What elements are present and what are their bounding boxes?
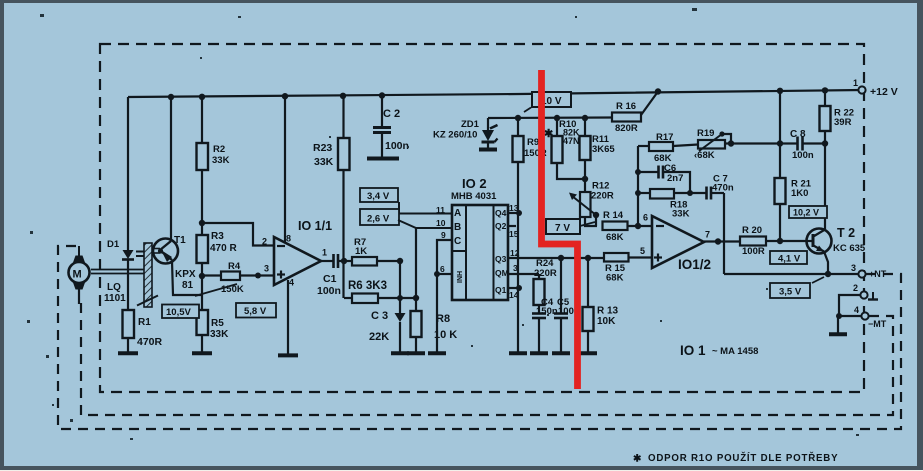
- svg-text:MHB 4031: MHB 4031: [451, 191, 497, 202]
- red marker line: [542, 70, 578, 389]
- svg-text:IO 1/1: IO 1/1: [298, 219, 332, 233]
- resistor R13: [583, 255, 619, 352]
- svg-text:81: 81: [182, 280, 194, 291]
- pin 14 wire: [508, 285, 522, 300]
- svg-text:R 16: R 16: [616, 101, 636, 112]
- wire: +12V top rail: [128, 90, 862, 97]
- svg-text:10,5V: 10,5V: [166, 307, 191, 318]
- voltage box 2,6V: [360, 209, 452, 228]
- ground: [479, 148, 497, 152]
- resistor R21: [775, 178, 812, 241]
- svg-text:IO1/2: IO1/2: [678, 257, 711, 272]
- svg-text:100n: 100n: [385, 140, 409, 152]
- svg-text:R 20: R 20: [742, 225, 762, 236]
- capacitor C6: [638, 163, 690, 193]
- node dots: [515, 115, 588, 121]
- ground: [428, 351, 446, 355]
- svg-text:4: 4: [854, 305, 859, 315]
- ground: [367, 157, 399, 161]
- voltage box 7V: [546, 219, 595, 234]
- enclosure dashed box: [100, 44, 864, 392]
- ground: [530, 351, 548, 355]
- resistor R24: [534, 258, 557, 313]
- svg-text:C 3: C 3: [371, 310, 388, 322]
- resistor R10: [552, 118, 586, 179]
- wire to R4: [202, 274, 221, 276]
- wire output to C1: [321, 260, 333, 262]
- svg-text:10,2 V: 10,2 V: [793, 208, 819, 218]
- wire: [127, 259, 129, 310]
- svg-text:A: A: [454, 208, 461, 219]
- svg-text:R9: R9: [527, 137, 539, 148]
- svg-text:5: 5: [640, 246, 645, 256]
- motor shaft double line: [91, 270, 146, 274]
- voltage box 5,8V: [195, 284, 276, 318]
- svg-text:7 V: 7 V: [555, 223, 570, 234]
- svg-text:1: 1: [322, 248, 327, 258]
- svg-text:10K: 10K: [597, 316, 616, 327]
- svg-text:10: 10: [436, 218, 446, 228]
- svg-text:470 R: 470 R: [210, 243, 237, 254]
- terminal 1 +12V: [853, 78, 898, 98]
- ground: [509, 351, 527, 355]
- svg-text:1: 1: [853, 78, 858, 88]
- resistor R18: [638, 189, 706, 220]
- resistor R7: [344, 237, 400, 266]
- svg-text:ODPOR R1O POUŽÍT DLE POTŘEBY: ODPOR R1O POUŽÍT DLE POTŘEBY: [648, 452, 838, 464]
- wire: [201, 263, 203, 310]
- wire emitter line to terminal 3: [724, 271, 858, 277]
- svg-text:R8: R8: [436, 313, 450, 325]
- capacitor C8: [790, 129, 825, 161]
- svg-text:R23: R23: [313, 142, 332, 154]
- svg-text:33K: 33K: [314, 156, 334, 168]
- wire: [201, 335, 203, 352]
- node: [715, 238, 721, 244]
- voltage box 10,2V: [789, 206, 827, 218]
- svg-text:B: B: [454, 222, 461, 233]
- pin 15 stub: [508, 226, 519, 239]
- feedback bus wire: [635, 146, 649, 226]
- resistor R4: [221, 261, 244, 295]
- svg-text:R19: R19: [697, 128, 714, 139]
- svg-text:39R: 39R: [834, 117, 852, 128]
- svg-text:QM: QM: [495, 268, 509, 278]
- op-amp IO1/2: [652, 216, 711, 272]
- svg-text:+NT: +NT: [869, 269, 887, 279]
- svg-text:M: M: [73, 269, 82, 281]
- wire op-amp pin4 ground: [287, 280, 289, 354]
- svg-text:11: 11: [436, 205, 445, 215]
- svg-text:Q3: Q3: [495, 254, 507, 264]
- capacitor C3: [369, 261, 406, 352]
- wire R9 down to pin13/pin14 column: [517, 162, 519, 352]
- svg-text:8: 8: [286, 234, 291, 244]
- svg-text:KC 635: KC 635: [833, 243, 866, 254]
- capacitor C2: [373, 108, 409, 157]
- wire 10V node line: [488, 116, 612, 119]
- svg-text:150n: 150n: [536, 306, 558, 317]
- capacitor C2 column: [381, 96, 383, 128]
- resistor R11: [580, 118, 616, 191]
- svg-text:9: 9: [441, 230, 446, 240]
- svg-text:R17: R17: [656, 132, 673, 143]
- resistor R14: [596, 210, 652, 243]
- capacitor C1: [317, 254, 344, 297]
- wire R19 to C8: [725, 142, 797, 144]
- footnote text: [633, 452, 838, 465]
- resistor R23: [313, 138, 350, 170]
- svg-text:7: 7: [705, 230, 710, 240]
- svg-text:Q1: Q1: [495, 285, 507, 295]
- resistor R5: [197, 310, 230, 340]
- svg-text:2,6 V: 2,6 V: [367, 214, 390, 225]
- wire R4 to op-amp: [240, 274, 274, 276]
- svg-text:33K: 33K: [210, 329, 229, 340]
- LED D1: [107, 239, 144, 260]
- pin 6 wire: [434, 264, 452, 277]
- svg-text:100R: 100R: [742, 246, 765, 257]
- svg-text:1K0: 1K0: [791, 188, 808, 199]
- ground: [829, 332, 847, 336]
- resistor R9: [513, 118, 547, 162]
- svg-text:C 2: C 2: [383, 108, 400, 120]
- svg-text:220R: 220R: [591, 191, 614, 202]
- node: [341, 258, 347, 264]
- svg-text:‹68K: ‹68K: [694, 150, 715, 161]
- svg-text:3K65: 3K65: [592, 144, 615, 155]
- node dots on rail: [168, 87, 828, 100]
- node: [199, 273, 205, 279]
- op-amp IO1/1: [262, 219, 332, 288]
- slotted disc: [137, 243, 158, 307]
- svg-text:Q2: Q2: [495, 221, 507, 231]
- wire T1 emitter: [172, 261, 202, 295]
- ground: [278, 353, 298, 357]
- svg-text:R1: R1: [138, 317, 151, 328]
- phototransistor T1: [153, 235, 186, 264]
- voltage box 10,5V: [162, 305, 199, 319]
- pin 12 wire to R15: [508, 248, 604, 258]
- svg-text:3: 3: [851, 263, 856, 273]
- svg-text:−MT: −MT: [868, 319, 887, 329]
- svg-text:T 2: T 2: [837, 226, 855, 240]
- resistor R3: [197, 231, 238, 263]
- resistor R2: [197, 143, 230, 170]
- wire: [127, 338, 129, 352]
- wire C7 down to emitter line: [723, 193, 725, 274]
- ground: [118, 351, 138, 355]
- svg-text:3: 3: [264, 264, 269, 274]
- wire D1 column: [127, 97, 129, 250]
- svg-text:INH: INH: [457, 271, 464, 283]
- resistor R6: [344, 280, 416, 303]
- svg-text:1K: 1K: [355, 246, 367, 257]
- svg-text:1101: 1101: [104, 293, 126, 304]
- svg-text:IO 2: IO 2: [462, 176, 487, 191]
- capacitor C4: [532, 297, 558, 352]
- trimmer R19: [694, 128, 734, 161]
- node: [199, 220, 205, 226]
- dashed cable wire +NT to motor: [58, 246, 901, 429]
- svg-text:R4: R4: [228, 261, 241, 272]
- capacitor C7: [707, 174, 734, 200]
- wire R21 column: [777, 91, 783, 178]
- svg-text:470n: 470n: [712, 183, 734, 194]
- pin 9 wire: [437, 230, 452, 352]
- svg-text:2: 2: [262, 237, 267, 247]
- svg-text:R3: R3: [211, 231, 224, 242]
- wire to pin2: [202, 223, 274, 246]
- ground: [407, 351, 425, 355]
- node: [777, 238, 783, 244]
- wire R2 column: [201, 97, 203, 143]
- svg-text:R6 3K3: R6 3K3: [348, 280, 387, 292]
- transistor T2: [807, 226, 866, 274]
- svg-text:IO 1: IO 1: [680, 343, 706, 358]
- voltage box 3,4V: [360, 188, 452, 214]
- svg-text:33K: 33K: [672, 209, 690, 220]
- zener ZD1: [433, 118, 498, 148]
- node: [397, 258, 403, 264]
- wire T1 collector column: [170, 97, 172, 240]
- svg-text:2: 2: [853, 283, 858, 293]
- voltage box 3,5V: [770, 277, 824, 298]
- label KPX 81: [175, 269, 196, 291]
- svg-text:C1: C1: [323, 273, 337, 285]
- ground: [579, 351, 597, 355]
- resistor R1: [123, 310, 163, 348]
- svg-text:470R: 470R: [137, 336, 163, 348]
- node: [255, 273, 261, 279]
- svg-text:R2: R2: [213, 144, 225, 155]
- resistor R8: [411, 228, 458, 352]
- ground: [391, 351, 409, 355]
- svg-text:5,8 V: 5,8 V: [244, 306, 267, 317]
- ground: [552, 351, 570, 355]
- terminal 2: [839, 283, 878, 316]
- voltage box 4,1V: [770, 251, 807, 265]
- svg-text:T1: T1: [174, 235, 186, 246]
- svg-text:D1: D1: [107, 239, 120, 250]
- svg-text:33K: 33K: [212, 155, 230, 166]
- trimmer R12: [569, 181, 614, 227]
- ground: [192, 351, 212, 355]
- svg-text:KPX: KPX: [175, 269, 196, 280]
- resistor R16: [612, 92, 658, 135]
- IC IO2 MHB 4031: [451, 176, 509, 300]
- label LQ 1101: [104, 282, 126, 304]
- svg-text:LQ: LQ: [107, 282, 121, 293]
- svg-text:✱: ✱: [633, 454, 642, 465]
- svg-text:6: 6: [440, 264, 445, 274]
- svg-text:100n: 100n: [317, 285, 341, 297]
- pin 3 wire: [508, 263, 539, 274]
- svg-text:R 13: R 13: [597, 306, 619, 317]
- svg-text:C 8: C 8: [790, 129, 806, 140]
- wire: [201, 170, 203, 235]
- svg-text:C: C: [454, 236, 461, 247]
- dashed cable wire -MT to motor: [81, 302, 893, 415]
- svg-text:68K: 68K: [606, 232, 624, 243]
- svg-text:4: 4: [289, 278, 294, 288]
- node: [397, 295, 403, 301]
- wire op-amp output: [704, 240, 740, 242]
- svg-text:3,5 V: 3,5 V: [779, 287, 802, 298]
- svg-text:Q4: Q4: [495, 208, 507, 218]
- pin 13 stub: [508, 203, 522, 216]
- label IO1 = MA 1458: [680, 343, 758, 358]
- wire: [342, 170, 344, 298]
- svg-text:6: 6: [643, 213, 648, 223]
- svg-text:3,4 V: 3,4 V: [367, 191, 390, 202]
- svg-text:2n7: 2n7: [667, 173, 683, 184]
- svg-text:220R: 220R: [534, 268, 557, 279]
- resistor R22: [820, 90, 855, 229]
- svg-text:R5: R5: [211, 318, 224, 329]
- svg-text:4,1 V: 4,1 V: [778, 254, 801, 265]
- resistor R17: [649, 132, 698, 164]
- capacitor C5: [554, 255, 580, 352]
- resistor R23 column: [342, 96, 344, 138]
- svg-text:22K: 22K: [369, 331, 389, 343]
- resistor R15: [604, 253, 652, 284]
- svg-text:~ MA 1458: ~ MA 1458: [712, 346, 758, 357]
- svg-text:KZ 260/10: KZ 260/10: [433, 130, 477, 141]
- svg-text:47N: 47N: [563, 136, 580, 146]
- terminal 4 -MT: [836, 305, 887, 333]
- svg-text:ZD1: ZD1: [461, 119, 480, 130]
- svg-text:100n: 100n: [792, 150, 814, 161]
- voltage box 10V: [524, 92, 571, 112]
- svg-text:820R: 820R: [615, 123, 638, 134]
- resistor R20: [740, 225, 807, 257]
- motor M: [69, 246, 90, 304]
- svg-text:68K: 68K: [606, 273, 624, 284]
- svg-text:+12 V: +12 V: [870, 86, 898, 98]
- terminal 3 +NT: [851, 263, 887, 279]
- svg-text:R 14: R 14: [603, 210, 624, 221]
- wire op-amp power pin8: [284, 96, 286, 243]
